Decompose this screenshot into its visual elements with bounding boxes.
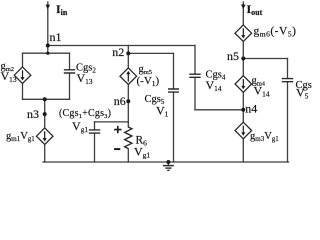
wire loop left edge lower [22, 84, 24, 100]
node at loop bottom [43, 97, 47, 101]
wire bottom rail [43, 161, 289, 163]
label plus sign [114, 126, 121, 133]
node at loop top junction [46, 52, 49, 55]
wire g_m4 to n4 to g_m3 [242, 92, 244, 122]
svg-text:V13: V13 [1, 69, 17, 84]
wire g_m5 to n6 to mid wire [127, 85, 129, 122]
arrow I_out [241, 5, 246, 10]
svg-text:Vg1: Vg1 [134, 145, 150, 160]
wire Cgs4 column upper [194, 46, 196, 74]
capacitor Cgs6 [282, 79, 293, 82]
wire cap13 to rail [94, 134, 96, 162]
node n2 [126, 51, 130, 55]
wire mid horizontal to cap13 [95, 121, 129, 123]
label minus sign [114, 148, 120, 150]
wire n5 horizontal to Cgs6 [243, 58, 287, 60]
capacitor Cgs5 [168, 89, 179, 92]
wire n4 horizontal [195, 109, 243, 111]
wire loop right edge upper [69, 53, 71, 69]
wire ground stub [167, 162, 169, 165]
svg-text:n5: n5 [227, 49, 239, 63]
wire Cgs6 column upper [287, 59, 289, 79]
svg-text:V1: V1 [156, 104, 169, 119]
wire top rail n1 to Cgs4 column [48, 45, 195, 47]
dependent source g_m6 [235, 25, 252, 42]
svg-text:Vg1: Vg1 [72, 119, 88, 134]
node n3 [43, 112, 47, 116]
wire R6 top lead [127, 122, 129, 127]
node n6 [126, 99, 130, 103]
svg-text:Iout: Iout [247, 2, 263, 17]
svg-text:n1: n1 [50, 30, 62, 44]
wire loop top edge [23, 52, 70, 54]
svg-text:Iin: Iin [56, 2, 68, 17]
capacitor Cgs4 [189, 74, 200, 77]
wire n2 horizontal to Cgs5 [128, 52, 173, 54]
dependent source g_m4 [235, 76, 252, 93]
wire n3 column [44, 99, 46, 128]
wire g_m3 to rail [242, 139, 244, 162]
wire n5 to g_m4 [242, 59, 244, 76]
dependent source g_m3 [235, 122, 252, 139]
svg-text:gm6(-V5): gm6(-V5) [254, 26, 297, 39]
svg-text:(Cgs1+Cgs3): (Cgs1+Cgs3) [59, 108, 111, 120]
wire Cgs5 column lower [173, 93, 175, 162]
dependent source g_m5 [120, 68, 137, 85]
wire Cgs6 column lower [287, 82, 289, 162]
wire n2 stub from rail [127, 46, 129, 54]
node n4 [241, 108, 245, 112]
wire cap13 stub [94, 122, 96, 129]
capacitor Cgs2 [64, 70, 75, 73]
wire R6 bottom lead [127, 149, 129, 162]
wire g_m6 to n5 [242, 42, 244, 59]
wire loop right edge lower [69, 74, 71, 100]
capacitor Cgs1+Cgs3 [89, 130, 100, 133]
node n1 [46, 44, 50, 48]
arrow I_in [46, 5, 51, 10]
svg-text:gm3Vg1: gm3Vg1 [250, 131, 279, 143]
wire Cgs4 column lower [194, 78, 196, 110]
svg-text:n2: n2 [112, 45, 124, 59]
node n5 [241, 57, 245, 61]
wire I_out vertical [242, 2, 244, 25]
wire loop bottom edge [23, 98, 70, 100]
wire n1 stub to loop top [47, 46, 49, 54]
svg-text:gm1Vg1: gm1Vg1 [6, 131, 35, 143]
svg-text:n3: n3 [27, 107, 39, 121]
dependent source g_m1 [36, 128, 53, 145]
node ground junction [166, 160, 170, 164]
dependent source g_m2 [14, 67, 31, 84]
wire n2 to g_m5 [127, 53, 129, 68]
svg-text:n4: n4 [245, 101, 257, 115]
wire loop left edge upper [22, 53, 24, 67]
resistor R6 [125, 127, 132, 149]
wire I_in vertical [47, 2, 49, 46]
wire g_m1 to bottom rail [44, 145, 46, 163]
ground [163, 166, 174, 171]
svg-text:n6: n6 [114, 94, 126, 108]
svg-text:V14: V14 [254, 84, 270, 99]
wire Cgs5 column upper [173, 53, 175, 88]
svg-text:(-V1): (-V1) [137, 75, 160, 88]
